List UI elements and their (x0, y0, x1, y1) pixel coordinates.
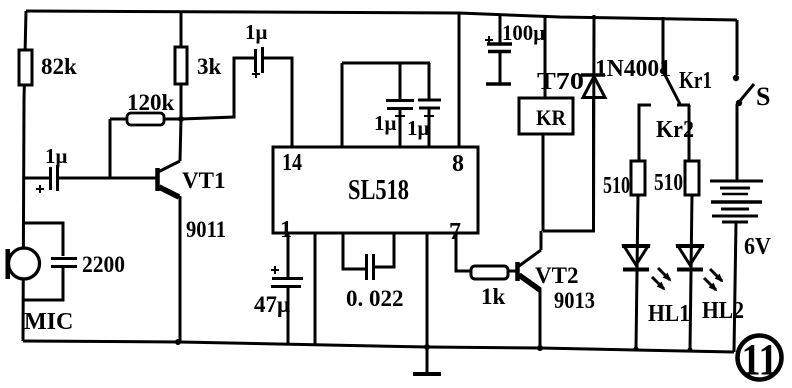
svg-text:HL2: HL2 (702, 298, 744, 324)
svg-text:SL518: SL518 (348, 174, 409, 206)
svg-text:1μ: 1μ (45, 144, 68, 168)
svg-text:S: S (756, 82, 770, 111)
svg-text:100μ: 100μ (502, 20, 545, 45)
svg-text:1N4001: 1N4001 (595, 56, 671, 82)
svg-text:47μ: 47μ (254, 292, 290, 317)
svg-text:8: 8 (452, 151, 464, 177)
svg-text:120k: 120k (127, 90, 175, 115)
svg-text:1: 1 (280, 217, 292, 243)
svg-text:510: 510 (654, 170, 683, 196)
svg-text:1μ: 1μ (374, 111, 397, 135)
svg-text:9011: 9011 (186, 217, 226, 242)
svg-text:9013: 9013 (554, 288, 595, 313)
svg-text:6V: 6V (744, 234, 772, 260)
svg-text:T70: T70 (537, 69, 584, 95)
svg-text:KR: KR (536, 105, 567, 130)
svg-text:1k: 1k (481, 284, 506, 309)
svg-text:0. 022: 0. 022 (346, 286, 404, 311)
svg-text:Kr2: Kr2 (656, 117, 694, 143)
svg-text:1μ: 1μ (245, 20, 268, 44)
svg-text:14: 14 (282, 150, 302, 176)
svg-text:3k: 3k (197, 54, 222, 79)
svg-text:82k: 82k (41, 54, 77, 79)
svg-text:510: 510 (603, 173, 630, 199)
svg-text:VT2: VT2 (535, 263, 578, 288)
svg-text:1μ: 1μ (407, 116, 430, 140)
svg-text:2200: 2200 (82, 252, 125, 277)
svg-text:11: 11 (742, 335, 778, 384)
svg-text:HL1: HL1 (648, 301, 690, 327)
svg-text:MIC: MIC (24, 309, 73, 335)
svg-text:Kr1: Kr1 (679, 68, 712, 94)
svg-text:VT1: VT1 (182, 168, 225, 193)
